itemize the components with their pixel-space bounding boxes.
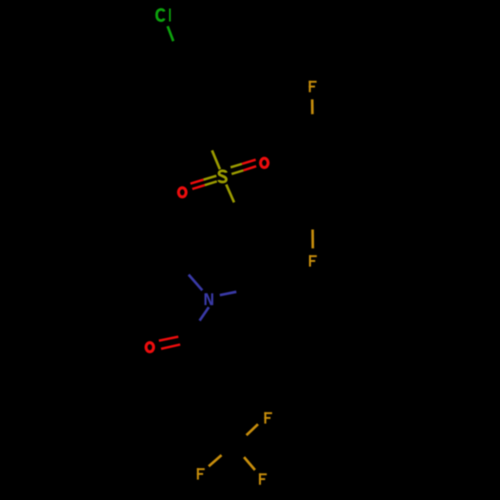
double bond S=O right, line 1 (S half)	[231, 164, 242, 167]
double bond S=O left, line 1 (S half)	[203, 176, 216, 180]
bond C-Cl (Cl half)	[168, 26, 174, 41]
bond aryl C-F top (F half)	[311, 99, 314, 114]
fluorine F label CF3 upper-right	[264, 412, 272, 423]
double bond S=O right, line 1 (O half)	[242, 160, 256, 164]
sulfur S label	[219, 171, 226, 182]
double bond S=O left, line 1 (O half)	[190, 180, 203, 184]
fluorine F label aryl bottom	[309, 255, 317, 266]
fluorine F label CF3 lower-right	[259, 473, 267, 484]
bond S to quaternary carbon (S half)	[226, 185, 234, 203]
oxygen O label left	[179, 188, 187, 197]
double bond S=O left, line 2 (S half)	[205, 181, 217, 185]
bond aryl C-F bottom (F half)	[311, 230, 314, 249]
double bond S=O left, line 2 (O half)	[192, 185, 204, 189]
bond N to carbonyl C (N half)	[200, 307, 209, 320]
bond CF3 C-F lower-right (F half)	[244, 457, 255, 470]
double bond C=O, line 1 (O half)	[159, 337, 178, 341]
bond S to aryl carbon (S half)	[212, 150, 220, 169]
fluorine F label CF3 lower-left	[197, 468, 205, 479]
fluorine F label aryl top	[309, 81, 317, 92]
chlorine Cl label	[157, 9, 171, 22]
double bond C=O, line 2 (O half)	[161, 345, 180, 349]
bond N to ring CH2 upper-left (N half)	[189, 275, 203, 291]
nitrogen N label	[204, 293, 213, 305]
bond CF3 C-F lower-left (F half)	[209, 455, 222, 466]
double bond S=O right, line 2 (O half)	[243, 166, 256, 170]
bond N to ring CH2 right (N half)	[220, 292, 237, 295]
oxygen O label right	[261, 158, 269, 167]
bond CF3 C-F upper-right (F half)	[246, 424, 258, 435]
double bond S=O right, line 2 (S half)	[232, 170, 244, 174]
carbonyl oxygen O label	[146, 343, 154, 352]
